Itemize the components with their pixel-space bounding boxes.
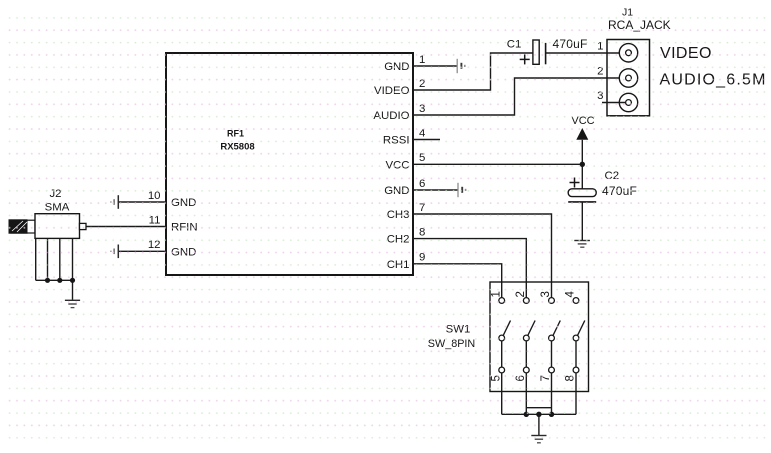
- net label VIDEO: [660, 45, 712, 62]
- wire pin8 CH2 to SW1: [413, 239, 526, 298]
- connector J1 RCA_JACK: [607, 6, 671, 116]
- wire pin10 GND: [119, 201, 167, 203]
- ground under C2: [574, 241, 590, 248]
- capacitor C1: [507, 37, 588, 64]
- ground stub pin6: [458, 183, 466, 197]
- wire pin12 GND: [119, 250, 167, 252]
- wire C2 to ground: [581, 202, 583, 240]
- junction VCC node: [580, 162, 585, 167]
- net label AUDIO_6.5M: [660, 72, 767, 89]
- ic pin 8 CH2 label: [387, 226, 426, 245]
- ic pin 5 VCC label: [385, 152, 425, 171]
- capacitor C2: [568, 170, 637, 202]
- switch pole 4: [565, 291, 585, 382]
- switch pole 1: [490, 291, 510, 381]
- ic pin 7 CH3 label: [387, 202, 426, 221]
- wire pin4 RSSI stub: [413, 139, 440, 141]
- ic pin 12 GND label: [148, 239, 196, 258]
- ic pin 9 CH1 label: [387, 252, 426, 271]
- J1 pin2 jack: [597, 66, 638, 88]
- wire J2 legs to ground bus: [36, 238, 73, 299]
- connector J2 SMA: [9, 188, 87, 238]
- switch pole 3: [540, 291, 560, 381]
- wire pin1 GND stub: [413, 65, 457, 67]
- junction J2 leg dots: [45, 278, 75, 283]
- ground under J2: [65, 300, 80, 307]
- ic pin 11 RFIN label: [149, 214, 198, 233]
- switch SW1 SW_8PIN: [428, 282, 589, 392]
- wire pin2 VIDEO to C1: [413, 53, 533, 90]
- ic pin 4 RSSI label: [383, 127, 425, 146]
- ground stub pin12: [111, 245, 118, 259]
- wire pin11 RFIN to J2: [86, 226, 166, 228]
- wire pin6 GND stub: [413, 189, 458, 191]
- wire pin5 VCC: [413, 163, 582, 165]
- ground stub pin1: [457, 59, 465, 73]
- ic pin 10 GND label: [148, 190, 196, 209]
- ic pin 6 GND label: [384, 178, 425, 197]
- ic pin 2 VIDEO label: [374, 78, 425, 97]
- wire pin9 CH1 to SW1: [413, 264, 502, 298]
- wire SW1 bottom bus: [502, 373, 576, 435]
- ground under SW1: [531, 436, 546, 443]
- ic pin 3 AUDIO label: [373, 103, 425, 122]
- wire C1 to J1 pin1: [546, 52, 626, 54]
- ic pin 1 GND label: [384, 54, 425, 73]
- switch pole 2: [515, 291, 535, 381]
- J1 pin3 jack: [597, 90, 638, 112]
- J1 pin1 jack: [597, 41, 638, 62]
- junction SW1 bus dots: [524, 412, 555, 417]
- wire J1 pin3 stub: [602, 102, 626, 104]
- ground stub pin10: [111, 195, 118, 209]
- wire pin7 CH3 to SW1: [413, 214, 552, 298]
- wire pin3 AUDIO to J1 pin2: [413, 78, 626, 115]
- ic RF1 RX5808: [166, 53, 413, 275]
- power VCC: [571, 115, 594, 189]
